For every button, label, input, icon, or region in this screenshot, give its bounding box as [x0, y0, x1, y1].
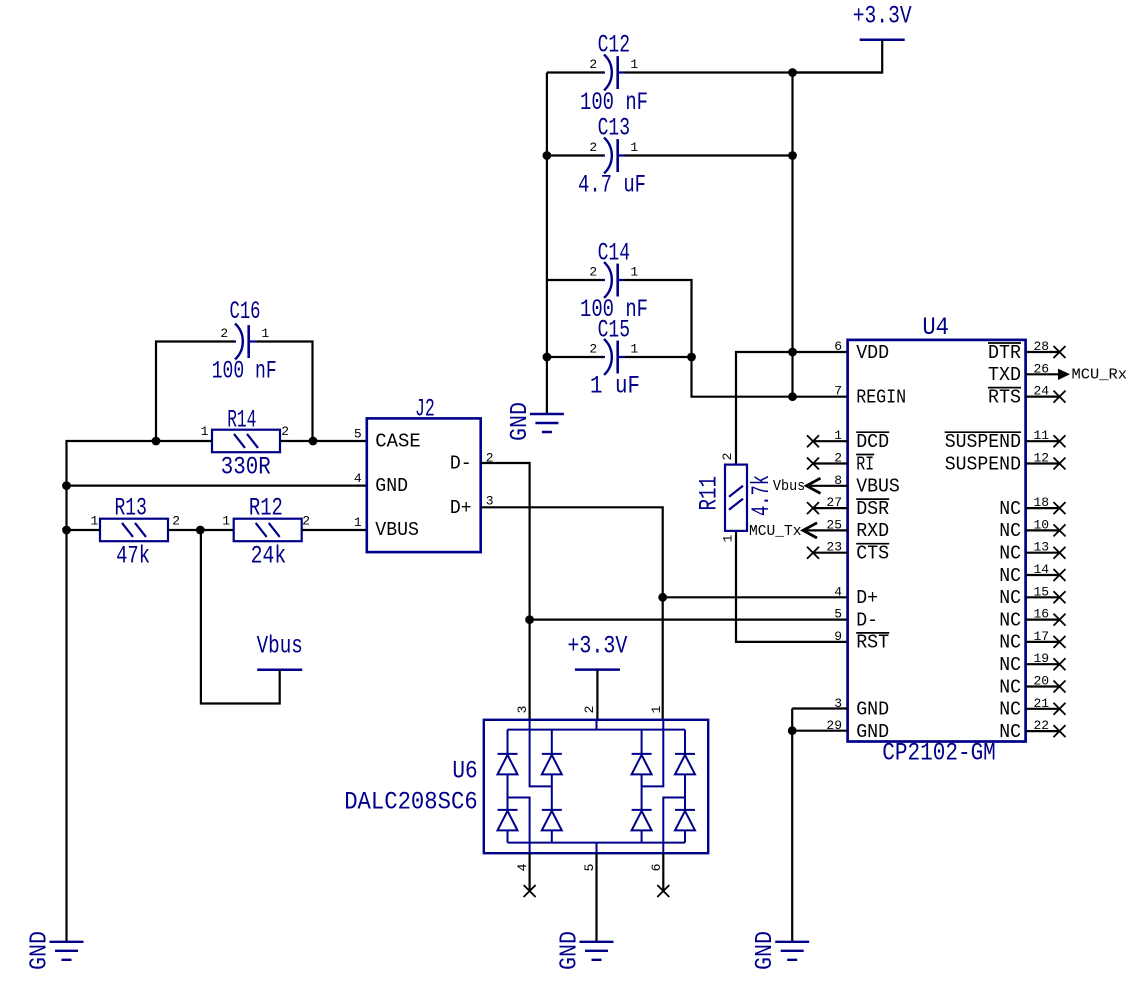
no-connect U6 pin 6	[657, 885, 669, 897]
wire U4 pin 21 stub	[1026, 708, 1060, 710]
power +3.3V (top)	[860, 39, 905, 42]
wire R14 to CASE	[280, 440, 367, 442]
no-connect U4 pin 19	[1054, 658, 1066, 670]
svg-text:C16: C16	[230, 297, 261, 326]
svg-text:2: 2	[589, 140, 597, 155]
svg-text:1: 1	[90, 513, 98, 528]
wire U4 TXD stub	[1026, 373, 1058, 375]
capacitor C12	[604, 55, 612, 91]
wire U4 pin 24 stub	[1026, 396, 1060, 398]
wire C15 right	[625, 356, 692, 358]
wire C16 right	[257, 342, 313, 442]
svg-text:SUSPEND: SUSPEND	[945, 431, 1021, 453]
wire U4 pin 20 stub	[1026, 685, 1060, 687]
svg-text:GND: GND	[856, 721, 889, 743]
wire C13 left	[547, 154, 603, 156]
svg-text:Vbus: Vbus	[773, 478, 805, 495]
svg-text:VBUS: VBUS	[375, 519, 419, 541]
svg-text:4.7 uF: 4.7 uF	[578, 171, 646, 200]
svg-text:2: 2	[589, 265, 597, 280]
svg-text:DTR: DTR	[988, 342, 1021, 364]
svg-text:C12: C12	[598, 31, 630, 60]
wire U4 pin 10 stub	[1026, 529, 1060, 531]
wire U4 pin 12 stub	[1026, 462, 1060, 464]
svg-text:1: 1	[630, 265, 638, 280]
svg-text:47k: 47k	[116, 542, 150, 571]
no-connect U4 pin 10	[1054, 524, 1066, 536]
junction D+	[658, 593, 667, 602]
wire U6 pin 5 to ground	[595, 853, 597, 942]
svg-text:D+: D+	[856, 587, 878, 609]
no-connect U4 pin 18	[1054, 502, 1066, 514]
wire D- to U4	[530, 618, 848, 620]
svg-text:NC: NC	[999, 587, 1021, 609]
junction D-	[525, 615, 534, 624]
svg-text:2: 2	[582, 706, 597, 714]
svg-text:RST: RST	[856, 632, 889, 654]
svg-text:CP2102-GM: CP2102-GM	[882, 739, 996, 768]
svg-text:NC: NC	[999, 676, 1021, 698]
diode array U6 box	[484, 720, 708, 853]
no-connect U4 pin 24	[1054, 391, 1066, 403]
capacitor C13	[604, 138, 612, 174]
U6 diode column 4	[684, 730, 686, 754]
svg-text:U6: U6	[452, 757, 477, 786]
svg-text:D+: D+	[450, 497, 472, 519]
svg-text:24k: 24k	[251, 542, 287, 571]
wire C16 left	[156, 342, 234, 442]
svg-text:1: 1	[261, 326, 269, 341]
U6 inner buses	[508, 729, 686, 731]
svg-text:100 nF: 100 nF	[212, 357, 277, 386]
svg-text:6: 6	[834, 339, 842, 354]
wire U4 pin 22 stub	[1026, 730, 1060, 732]
svg-text:CASE: CASE	[375, 431, 420, 453]
svg-text:+3.3V: +3.3V	[567, 631, 627, 660]
resistor R13	[100, 519, 168, 542]
no-connect U4 pin 12	[1054, 458, 1066, 470]
U6 diode column 1	[507, 730, 509, 754]
wire C13 right	[625, 154, 793, 156]
wire C14 right	[625, 280, 692, 357]
wire U4 pin 13 stub	[1026, 552, 1060, 554]
power Vbus	[257, 668, 302, 671]
wire +3.3V to C12 net	[793, 40, 883, 73]
no-connect U4 pin 22	[1054, 725, 1066, 737]
no-connect U4 pin 28	[1054, 346, 1066, 358]
svg-text:NC: NC	[999, 654, 1021, 676]
svg-text:GND: GND	[752, 931, 779, 970]
wire R14 left	[67, 441, 213, 942]
wire D+ net	[481, 507, 663, 720]
no-connect U4 pin 23	[807, 547, 819, 559]
svg-text:2: 2	[589, 57, 597, 72]
arrow MCU_Tx input	[803, 523, 817, 538]
power +3.3V (U6)	[575, 668, 620, 671]
wire U4 pin 11 stub	[1026, 440, 1060, 442]
svg-text:1: 1	[222, 513, 230, 528]
wire GND row to J2	[67, 485, 367, 487]
svg-text:1: 1	[721, 534, 736, 542]
U6 pin 1 stub	[642, 720, 664, 787]
svg-text:NC: NC	[999, 609, 1021, 631]
svg-text:+3.3V: +3.3V	[853, 2, 912, 31]
wire U4 pin 14 stub	[1026, 574, 1060, 576]
svg-text:C14: C14	[598, 239, 630, 268]
svg-text:TXD: TXD	[988, 364, 1021, 386]
wire U4 pin 17 stub	[1026, 641, 1060, 643]
svg-text:NC: NC	[999, 632, 1021, 654]
svg-text:Vbus: Vbus	[257, 631, 303, 660]
svg-text:GND: GND	[27, 931, 54, 970]
U6 pin 4 stub	[508, 798, 530, 854]
no-connect U4 pin 27	[807, 502, 819, 514]
wire U4 pin 1 stub	[813, 440, 848, 442]
svg-text:MCU_Rx: MCU_Rx	[1072, 367, 1128, 384]
svg-text:1: 1	[649, 705, 664, 713]
svg-text:1: 1	[201, 424, 209, 439]
wire to REGIN	[692, 357, 848, 397]
wire U4 VBUS stub	[807, 485, 848, 487]
wire R11 to RST	[736, 531, 848, 642]
wire C12 right	[625, 71, 882, 73]
junction GND row	[62, 481, 71, 490]
wire U4 pin 2 stub	[813, 462, 848, 464]
svg-text:3: 3	[515, 706, 530, 714]
junction C15 left	[543, 353, 552, 362]
wire U4 pin 18 stub	[1026, 507, 1060, 509]
U6 diode column 2	[551, 730, 553, 754]
svg-text:U4: U4	[922, 313, 949, 342]
wire U4 pin 23 stub	[813, 552, 848, 554]
wire C15 left	[547, 356, 603, 358]
junction rail R13	[62, 526, 71, 535]
no-connect U4 pin 16	[1054, 614, 1066, 626]
svg-text:NC: NC	[999, 498, 1021, 520]
resistor R14	[212, 430, 280, 453]
svg-text:NC: NC	[999, 699, 1021, 721]
svg-text:2: 2	[281, 424, 289, 439]
svg-text:GND: GND	[375, 475, 408, 497]
svg-text:REGIN: REGIN	[856, 386, 906, 408]
svg-text:NC: NC	[999, 721, 1021, 743]
wire U4 pin 19 stub	[1026, 663, 1060, 665]
U6 pin 2 stub	[596, 720, 598, 730]
wire U4 RXD stub	[803, 529, 848, 531]
junction C14/C15 right	[687, 353, 696, 362]
svg-text:RXD: RXD	[856, 520, 889, 542]
wire VDD net	[736, 352, 848, 465]
svg-text:SUSPEND: SUSPEND	[945, 453, 1021, 475]
svg-text:C15: C15	[598, 316, 630, 345]
connector J2	[367, 418, 481, 552]
ground left rail	[50, 942, 84, 960]
svg-text:C13: C13	[598, 114, 630, 143]
svg-text:4: 4	[834, 584, 842, 599]
no-connect U4 pin 11	[1054, 435, 1066, 447]
wire R12 to J2 VBUS	[302, 529, 367, 531]
svg-text:4: 4	[354, 471, 362, 486]
svg-text:J2: J2	[415, 395, 435, 424]
svg-text:1: 1	[354, 515, 362, 530]
wire C12 left	[547, 71, 603, 73]
ground cap stack	[530, 414, 564, 432]
junction C16 right / CASE	[309, 437, 318, 446]
svg-text:R13: R13	[115, 494, 147, 523]
svg-text:4: 4	[515, 863, 530, 871]
wire U4 pin 15 stub	[1026, 596, 1060, 598]
capacitor C15	[604, 339, 612, 375]
no-connect U4 pin 2	[807, 458, 819, 470]
svg-text:330R: 330R	[221, 453, 271, 482]
wire U6 pin 6 nc	[662, 853, 664, 891]
wire R13 to R12	[168, 529, 234, 531]
junction VDD rail	[788, 348, 797, 357]
wire U4 GND pin 3	[792, 707, 847, 709]
svg-text:RI: RI	[856, 453, 874, 475]
svg-text:NC: NC	[999, 565, 1021, 587]
wire rail to R13	[67, 529, 101, 531]
svg-text:R14: R14	[227, 406, 256, 435]
svg-text:CTS: CTS	[856, 543, 889, 565]
junction GND pins	[788, 726, 797, 735]
junction C12/+3.3V	[788, 68, 797, 77]
svg-text:6: 6	[649, 864, 664, 872]
svg-text:2: 2	[720, 453, 735, 461]
junction C13 right	[788, 151, 797, 160]
no-connect U4 pin 21	[1054, 703, 1066, 715]
U6 pin 3 stub	[530, 720, 552, 787]
no-connect U4 pin 1	[807, 435, 819, 447]
svg-text:1: 1	[630, 342, 638, 357]
wire +3.3V to U6 pin 2	[596, 670, 598, 720]
svg-text:1: 1	[630, 57, 638, 72]
wire left cap rail	[546, 73, 548, 415]
wire right cap rail	[791, 73, 793, 397]
ground U4	[775, 942, 809, 960]
wire C14 left	[547, 279, 603, 281]
no-connect U4 pin 14	[1054, 569, 1066, 581]
capacitor C14	[604, 262, 612, 298]
svg-text:VDD: VDD	[856, 342, 889, 364]
svg-text:9: 9	[834, 629, 842, 644]
no-connect U4 pin 15	[1054, 591, 1066, 603]
wire U6 pin 4 nc	[528, 853, 530, 891]
svg-text:DCD: DCD	[856, 431, 889, 453]
svg-text:1: 1	[630, 140, 638, 155]
arrow MCU_Rx output	[1058, 369, 1070, 380]
no-connect U4 pin 17	[1054, 636, 1066, 648]
wire U4 pin 27 stub	[813, 507, 848, 509]
arrow Vbus input	[807, 478, 821, 493]
svg-text:5: 5	[834, 607, 842, 622]
wire Vbus drop	[201, 530, 280, 704]
no-connect U6 pin 4	[524, 885, 536, 897]
svg-text:4.7k: 4.7k	[747, 475, 776, 516]
wire U4 GND pin 29	[792, 730, 847, 732]
svg-text:RTS: RTS	[988, 386, 1021, 408]
U6 pin 6 stub	[663, 798, 685, 854]
svg-text:GND: GND	[856, 699, 889, 721]
junction REGIN rail	[788, 392, 797, 401]
svg-text:VBUS: VBUS	[856, 476, 900, 498]
wire D+ to U4	[663, 596, 848, 598]
svg-text:R12: R12	[249, 494, 283, 523]
wire U4 pin 16 stub	[1026, 618, 1060, 620]
svg-text:D-: D-	[450, 453, 472, 475]
svg-text:R11: R11	[695, 476, 724, 511]
svg-text:GND: GND	[507, 402, 534, 441]
U6 diode column 3	[641, 730, 643, 754]
wire GND pins down	[791, 709, 793, 942]
junction C16 left / R14	[152, 437, 161, 446]
svg-text:DALC208SC6: DALC208SC6	[344, 788, 478, 817]
ground U6	[580, 942, 614, 960]
svg-text:7: 7	[834, 384, 842, 399]
svg-text:2: 2	[302, 513, 310, 528]
capacitor C16	[235, 324, 243, 360]
svg-text:5: 5	[582, 864, 597, 872]
resistor R11	[725, 465, 747, 531]
wire U4 pin 28 stub	[1026, 351, 1060, 353]
svg-text:MCU_Tx: MCU_Tx	[749, 523, 802, 540]
no-connect U4 pin 20	[1054, 681, 1066, 693]
svg-text:NC: NC	[999, 520, 1021, 542]
svg-text:D-: D-	[856, 609, 878, 631]
U6 pin 5 stub	[596, 843, 598, 854]
svg-text:100 nF: 100 nF	[580, 88, 648, 117]
no-connect U4 pin 13	[1054, 547, 1066, 559]
svg-text:2: 2	[172, 513, 180, 528]
IC U4 box	[848, 340, 1026, 742]
wire D- net	[481, 463, 530, 720]
svg-text:5: 5	[354, 426, 362, 441]
svg-text:DSR: DSR	[856, 498, 889, 520]
junction C13 left	[543, 151, 552, 160]
svg-text:1 uF: 1 uF	[590, 372, 640, 401]
svg-text:2: 2	[220, 326, 228, 341]
svg-text:2: 2	[589, 342, 597, 357]
svg-text:GND: GND	[557, 931, 584, 970]
junction R13/R12/Vbus	[196, 526, 205, 535]
resistor R12	[234, 519, 302, 542]
svg-text:NC: NC	[999, 543, 1021, 565]
